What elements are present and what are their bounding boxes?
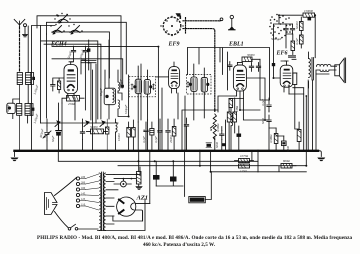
grid resistor EF6 vert: [291, 41, 295, 55]
AVC cap mid-left: [184, 118, 188, 151]
coil on bus: [116, 119, 118, 151]
svg-text:50μμF: 50μμF: [6, 104, 10, 112]
svg-text:1MΩ: 1MΩ: [235, 105, 239, 112]
ECH4 tube U1: [64, 62, 78, 98]
svg-text:510μμF: 510μμF: [124, 104, 128, 114]
wire right mid verticals: [260, 88, 299, 136]
svg-text:50μμF: 50μμF: [99, 88, 103, 96]
capacitor 50pF top B: [81, 46, 88, 60]
wire: [188, 48, 228, 91]
tuning cap on bus with arrow: [43, 119, 51, 151]
svg-text:EF6: EF6: [276, 51, 288, 57]
antenna coupling capacitor: [23, 24, 28, 37]
svg-text:125: 125: [81, 198, 86, 201]
trimmer cap row1: [31, 73, 35, 85]
wire mid horizontals: [182, 96, 218, 151]
svg-text:110: 110: [81, 203, 86, 206]
cord end loop: [219, 18, 223, 21]
wire: [88, 40, 90, 70]
B+ line low: [211, 151, 307, 172]
wire: [81, 62, 96, 64]
svg-text:5000: 5000: [286, 146, 290, 153]
resistor mid E: [172, 119, 176, 151]
wire: [286, 24, 293, 48]
wire right verticals: [304, 74, 316, 151]
transformer taps: [106, 175, 118, 224]
svg-text:5000: 5000: [215, 142, 219, 149]
cap row mid A: [144, 122, 148, 151]
junction blob: [87, 48, 90, 51]
wire long AVC: [52, 47, 158, 151]
trimmer cap row2: [30, 104, 34, 116]
svg-text:AZ1: AZ1: [136, 195, 149, 202]
capacitor 5000pF B: [290, 24, 294, 34]
power transformer primary winding: [99, 173, 101, 231]
electrolytic 50uF: [56, 125, 61, 151]
svg-text:50000: 50000: [295, 21, 299, 29]
antenna coil L2a: [17, 104, 22, 116]
svg-text:10000: 10000: [117, 133, 121, 141]
decoupling resistor vert B: [300, 35, 304, 48]
ground left: [11, 151, 19, 161]
svg-text:125Ω: 125Ω: [240, 169, 248, 173]
mains plug: [45, 193, 58, 215]
small resistor: [106, 119, 109, 151]
wire: [274, 24, 287, 78]
wire top bus 2: [47, 22, 127, 74]
wire EF6 plate: [281, 59, 304, 94]
mains switch bottom: [68, 224, 98, 230]
EF6 tube U4: [280, 61, 293, 94]
detector resistor under EBL1: [229, 99, 233, 108]
EBL1 tube U3: [233, 62, 246, 98]
svg-text:5000μμF: 5000μμF: [271, 37, 282, 41]
grid capacitor cluster left of U1: [51, 78, 64, 93]
IF decouple resistor A: [127, 122, 131, 151]
small cap under EF6 label: [289, 56, 296, 57]
wire nested 5: [44, 44, 101, 119]
tone cap black right: [282, 136, 287, 151]
wave trap box with dot: [7, 99, 19, 119]
wire EBL1 pins: [218, 91, 260, 112]
dial cord dotted upper: [183, 20, 219, 22]
cathode resistor under U1: [62, 96, 84, 104]
dial drum dotted circle: [160, 13, 183, 36]
AVC resistor column B: [233, 98, 237, 133]
wire: [41, 26, 47, 124]
resistor row: osc grid leak: [87, 129, 108, 134]
tuning gang capacitor 1: [54, 13, 70, 24]
wire right-mid components: 0.1uF cap: [267, 100, 271, 111]
svg-text:50μF: 50μF: [51, 135, 55, 142]
wire: [93, 64, 129, 151]
wire EF9 col: [81, 61, 96, 121]
wire right column: [246, 59, 265, 120]
AVC resistor column A: [227, 103, 231, 151]
coupling cap mid: [220, 131, 224, 140]
EF6 grid stopper black cap: [272, 63, 275, 66]
pointer pin: [229, 15, 235, 29]
wire EBL1 bottom to tone: [243, 99, 265, 121]
switch contact arrow 3: [100, 121, 105, 127]
svg-text:5000: 5000: [261, 118, 265, 125]
loudspeaker: [335, 58, 346, 83]
heater resistor B: [239, 164, 250, 168]
capacitor 5000pF A: [284, 24, 288, 34]
switch contact arrow 1: [55, 121, 60, 127]
svg-text:ECH4: ECH4: [50, 42, 67, 48]
coil under EBL1: [231, 108, 233, 151]
capacitor left of EBL1: [228, 62, 232, 71]
heater dropper resistor with ground: [135, 151, 142, 190]
oscillator padder coil A: [118, 70, 124, 100]
wire: [238, 126, 240, 151]
wire nested 4: [41, 41, 98, 119]
output transformer: [309, 52, 337, 88]
speaker field resistor: [281, 164, 296, 169]
cathode box right of EF6: [293, 73, 297, 88]
oscillator padder coil B: [118, 100, 129, 117]
svg-text:EF9: EF9: [168, 42, 180, 48]
wire selector top to bus lines: [114, 167, 140, 175]
svg-text:25000: 25000: [169, 135, 173, 143]
antenna coil L1b: [26, 26, 31, 104]
svg-text:30000: 30000: [247, 53, 255, 57]
IF transformer 2: [187, 64, 212, 120]
cap row mid C: [158, 119, 162, 151]
wire top bus 1: [37, 16, 121, 88]
small caps above bus near pot: [206, 143, 226, 148]
ground right: [317, 151, 325, 161]
svg-text:PHILIPS RADIO - Mod. BI 480/A,: PHILIPS RADIO - Mod. BI 480/A, mod. BI 4…: [37, 235, 352, 241]
svg-text:145: 145: [81, 192, 86, 195]
heater resistor A: [235, 159, 254, 163]
dial cord dotted lower: [183, 29, 215, 112]
AZ1 rectifier U5: [117, 197, 150, 221]
voltage selector labels: [81, 176, 86, 207]
dotted cluster near EF6: [270, 14, 291, 37]
power transformer secondary winding: [104, 173, 106, 231]
wire EBL1 top: [188, 48, 270, 101]
svg-text:250Ω: 250Ω: [68, 102, 76, 106]
wire bus drop 1: [185, 151, 258, 197]
dial lamp: [114, 178, 136, 187]
svg-text:EBL1: EBL1: [228, 42, 244, 48]
tuning gang capacitor 3: [68, 24, 82, 35]
tuning gang capacitor 2: [50, 24, 64, 35]
volume potentiometer: [210, 114, 216, 151]
wire nested 6: [52, 59, 123, 88]
voltage selector: [76, 174, 98, 210]
EF9 tube U2: [169, 62, 180, 93]
cap row mid D: [166, 119, 170, 151]
switch contact arrow 2: [84, 121, 89, 127]
wire right-mid cap 2: [267, 115, 271, 151]
extra dial dots EF6: [269, 17, 288, 39]
black cap mid: [237, 134, 242, 137]
antenna coil L2b: [25, 104, 30, 124]
wire AZ1 bottom: [113, 211, 143, 221]
IF transformer 1: [129, 66, 156, 122]
svg-text:85μμF: 85μμF: [119, 79, 123, 87]
value labels small: [6, 9, 314, 173]
capacitor right of EBL1 B: [256, 63, 260, 72]
svg-text:800Ω: 800Ω: [283, 159, 291, 163]
screen resistor EBL1: [242, 57, 260, 62]
capacitor on bus left: [80, 119, 84, 151]
heater line 2: [118, 96, 306, 166]
svg-text:160: 160: [81, 187, 86, 190]
wire mid: [222, 120, 226, 151]
tone resistor vert right: [274, 128, 278, 151]
dial cord dotted left drop: [185, 18, 187, 33]
heater line 1: [58, 151, 258, 162]
EF9 label pointer wire: [156, 76, 169, 78]
antenna coil L1a: [17, 73, 22, 85]
wire bottom long: [98, 151, 150, 231]
plug wires to selector: [55, 178, 77, 228]
wire B+ right: [279, 15, 315, 58]
field coil black bar: [189, 172, 212, 203]
wire: [32, 26, 56, 151]
wire verticals to bus left: [59, 98, 76, 151]
plate resistor 150k: [279, 13, 316, 20]
black capacitor A below bus: [153, 161, 160, 186]
oscillator coil box: [104, 40, 115, 119]
svg-text:1075Ω: 1075Ω: [240, 154, 249, 158]
svg-text:50000: 50000: [90, 125, 98, 129]
capacitor 50pF top A: [71, 46, 76, 62]
bias resistor right: [297, 122, 301, 151]
capacitor right of EBL1 A: [249, 63, 253, 72]
svg-text:220: 220: [81, 176, 86, 179]
wire mid verticals: [138, 64, 178, 151]
decoupling resistor vert A: [300, 17, 304, 35]
wire nested 3: [52, 32, 109, 78]
IF decouple resistor B: [132, 120, 136, 151]
band switch wire: [41, 122, 119, 124]
svg-text:460 kc/s. Potenza d’uscita 2,5: 460 kc/s. Potenza d’uscita 2,5 W.: [143, 242, 216, 248]
main ground bus: [15, 150, 319, 152]
black capacitor B below bus: [156, 161, 183, 186]
power transformer core: [102, 172, 104, 231]
antenna: [14, 19, 25, 150]
cap row mid B black: [150, 122, 154, 151]
svg-text:200: 200: [81, 181, 86, 184]
svg-text:150000: 150000: [304, 9, 314, 13]
